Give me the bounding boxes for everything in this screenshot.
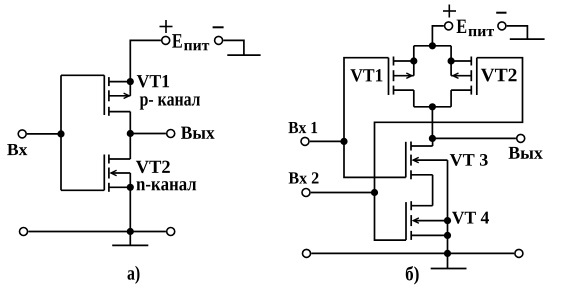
label VT1 (a) (137, 75, 169, 87)
node supply tap (b) (429, 42, 436, 49)
label р-канал (a) (140, 96, 200, 109)
label + (battery b) (443, 5, 456, 18)
wire gate bus to VT1 gate (a) (61, 74, 104, 76)
wire output node to VT2 drain (a) (129, 134, 131, 160)
output terminal Вых (b) (517, 134, 525, 142)
transistor VT2 p-channel (b) (451, 57, 477, 96)
label − (battery b) (496, 12, 506, 14)
node output (b) (429, 135, 436, 142)
node Вх1 (b) (340, 138, 347, 145)
label а) (128, 266, 140, 284)
label VT1 (b) (350, 69, 382, 81)
wire output node to terminal (a) (130, 133, 166, 135)
terminal − of Eпит (b) (498, 22, 506, 30)
wire + terminal to VT1 source (a) (130, 40, 161, 81)
node Вх2 (b) (371, 189, 378, 196)
transistor VT1 p-channel (a) (104, 75, 130, 116)
label n-канал (a) (136, 181, 196, 190)
label Вых (a) (181, 127, 215, 139)
wire Вх1 to node (b) (310, 140, 344, 142)
node ground junction (b) (444, 250, 451, 257)
transistor VT2 n-channel (a) (104, 155, 130, 192)
node VT4 substrate junction (b) (444, 217, 451, 224)
wire VT2 source to ground rail (a) (129, 187, 131, 231)
wire VT1 gate (b) (344, 58, 389, 142)
terminal − of Eпит (a) (215, 36, 223, 44)
node VT2 source junction (b) (448, 57, 455, 64)
label Eпит (a) (172, 34, 182, 47)
chassis ground bar (battery b) (510, 38, 545, 40)
wire Вх to gate bus (a) (27, 133, 61, 135)
label − (battery a) (213, 26, 224, 28)
wire Вх1 node to VT3 gate (b) (344, 141, 406, 177)
node ground junction (a) (127, 228, 134, 235)
ground symbol (b) (431, 253, 467, 268)
wire supply rail to VT2 source (b) (450, 46, 452, 76)
label VT2 (a) (136, 161, 170, 174)
wire VT3 substrate to ground (b) (447, 160, 449, 253)
transistor VT4 n-channel (b) (406, 201, 448, 240)
node VT1 source junction (b) (410, 57, 417, 64)
label Вх 1 (288, 122, 317, 133)
transistor VT1 p-channel (b) (389, 57, 414, 96)
input terminal Вх1 (b) (301, 137, 309, 145)
node output (a) (127, 130, 134, 137)
input terminal Вх2 (b) (302, 189, 310, 197)
label Вх (a) (7, 144, 27, 155)
ground symbol (a) (112, 232, 148, 246)
ground rail (b) (311, 252, 514, 254)
label б) (406, 266, 419, 285)
label VT2 (b) (481, 69, 517, 82)
node gate bus (a) (57, 130, 64, 137)
wire supply rail to VT1 source (b) (413, 46, 415, 76)
wire VT2 drain to common node (b) (450, 90, 452, 107)
wire VT3 drain to output node (b) (432, 138, 434, 146)
terminal + of Eпит (b) (445, 22, 453, 30)
wire VT1 drain to output node (a) (129, 112, 131, 134)
wire Вх2 to node (b) (311, 192, 375, 194)
common drain rail (b) (414, 106, 451, 108)
output terminal Вых (a) (167, 130, 175, 138)
wire − terminal to chassis (a) (223, 40, 244, 55)
wire VT3 source to VT4 drain (b) (432, 175, 434, 206)
label VT 3 (450, 154, 488, 166)
node VT4 source junction (b) (444, 232, 451, 239)
terminal right of ground rail (a) (167, 228, 175, 236)
node common drain (b) (429, 103, 436, 110)
wire Вх2 node to VT4 gate (b) (375, 193, 407, 241)
supply rail (b) (414, 45, 451, 47)
wire VT1 drain to common node (b) (413, 90, 415, 107)
transistor VT3 n-channel (b) (406, 142, 448, 180)
node VT1 source junction (a) (127, 78, 134, 85)
terminal + of Eпит (a) (162, 36, 170, 44)
wire gate bus to VT2 gate (a) (61, 189, 104, 191)
wire − terminal to chassis (b) (507, 26, 528, 39)
wire gate bus vertical (a) (60, 75, 62, 190)
label VT 4 (452, 212, 489, 224)
node VT2 source junction (a) (127, 184, 134, 191)
input terminal Вх (a) (18, 130, 26, 138)
terminal left of ground rail (b) (303, 249, 311, 257)
terminal left of ground rail (a) (20, 228, 28, 236)
wire + terminal to supply rail (b) (432, 26, 443, 46)
label + (battery a) (160, 20, 173, 33)
ground rail (a) (28, 231, 166, 233)
label Вых (b) (509, 147, 543, 159)
terminal right of ground rail (b) (515, 249, 523, 257)
wire VT2 gate (b) (375, 58, 523, 193)
wire output node to terminal (b) (432, 137, 516, 139)
chassis ground bar (battery a) (227, 54, 260, 56)
wire common drain to output node (b) (431, 107, 433, 139)
label Вх 2 (289, 172, 319, 183)
label Eпит (b) (457, 20, 467, 33)
